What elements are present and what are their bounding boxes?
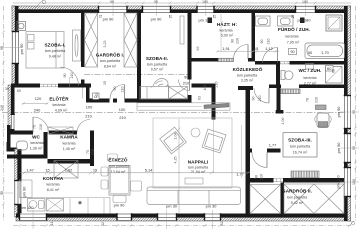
window W4 top (HAZT) bbox=[196, 6, 214, 14]
wall: left exterior KONYHA bbox=[15, 149, 22, 217]
svg-text:pm 90: pm 90 bbox=[336, 142, 341, 154]
furniture: rug NAPPALI bbox=[153, 118, 232, 188]
furniture: bed SZOBA-III bbox=[315, 113, 332, 128]
svg-text:kerámia: kerámia bbox=[52, 103, 66, 107]
exterior dim line right bbox=[354, 6, 357, 221]
room label WC-ZUH bbox=[298, 68, 321, 86]
wall V6 foot bbox=[276, 110, 284, 114]
window W2 top (GARDROB I) bbox=[98, 6, 128, 14]
door SZOBA-I arc bbox=[60, 67, 79, 87]
svg-text:210: 210 bbox=[39, 124, 43, 130]
svg-text:pm 90: pm 90 bbox=[336, 106, 341, 118]
svg-text:90: 90 bbox=[113, 87, 117, 91]
wall: right exterior bbox=[344, 6, 351, 221]
svg-text:63: 63 bbox=[198, 96, 202, 100]
furniture: shower FURDO bbox=[326, 15, 342, 31]
svg-text:210: 210 bbox=[119, 115, 126, 120]
svg-text:SZOBA-I.: SZOBA-I. bbox=[45, 43, 66, 48]
wall H8: WC+KAMRA top bbox=[11, 131, 34, 135]
svg-text:WC: WC bbox=[32, 135, 40, 140]
furniture: armchair 1 NAPPALI bbox=[160, 127, 187, 154]
svg-text:lam.parketta: lam.parketta bbox=[188, 165, 209, 169]
dim line interior horizontal bbox=[20, 171, 251, 174]
svg-text:4,99 m²: 4,99 m² bbox=[55, 109, 68, 113]
svg-text:78: 78 bbox=[306, 98, 310, 102]
svg-text:pm 90: pm 90 bbox=[22, 186, 27, 198]
furniture: shoe cabinet X ELOTER bbox=[48, 127, 73, 134]
door threshold FURDO bbox=[278, 62, 290, 65]
furniture: table behind sofa NAPPALI bbox=[185, 178, 203, 184]
furniture: radiator SZOBA-III bbox=[291, 171, 319, 178]
svg-text:210: 210 bbox=[85, 113, 92, 118]
window W3 top (SZOBA-II) bbox=[142, 6, 171, 14]
wall: WC sink niche bbox=[7, 142, 11, 152]
tiny pier dims bbox=[99, 15, 336, 73]
svg-text:90: 90 bbox=[260, 40, 264, 44]
wall V6: NAPPALI / SZOBA-III upper bbox=[277, 88, 281, 114]
svg-text:210: 210 bbox=[267, 39, 271, 45]
svg-text:kerámia: kerámia bbox=[30, 141, 44, 145]
svg-text:60: 60 bbox=[332, 69, 336, 73]
wall H9: WC bottom bbox=[7, 155, 48, 159]
furniture: kitchen sink bbox=[28, 199, 46, 212]
wall V7: hanging wall ETKEZO/NAPPALI bbox=[212, 88, 216, 120]
svg-text:HÁZT: H:: HÁZT: H: bbox=[217, 21, 238, 27]
svg-text:120: 120 bbox=[35, 96, 42, 101]
svg-text:210: 210 bbox=[121, 87, 125, 93]
room label NAPPALI bbox=[188, 160, 209, 175]
corner mark bottom-right bbox=[348, 221, 355, 227]
dim line vertical ETKEZO bbox=[178, 119, 181, 213]
furniture: wardrobe X SZOBA-II bbox=[169, 87, 188, 100]
svg-text:210: 210 bbox=[258, 96, 262, 102]
window bottom (NAPPALI 1) bbox=[157, 213, 177, 221]
svg-text:9,48 m²: 9,48 m² bbox=[49, 54, 62, 58]
dim line vertical HAZT bbox=[220, 14, 222, 52]
wall A: GARDROB II north (NAPPALI side) bbox=[246, 149, 253, 153]
svg-text:90: 90 bbox=[154, 0, 158, 4]
svg-text:240: 240 bbox=[0, 105, 4, 111]
svg-text:16,74 m²: 16,74 m² bbox=[293, 150, 308, 154]
door corridor->NAPPALI arc bbox=[254, 88, 269, 103]
svg-text:pm 90: pm 90 bbox=[114, 202, 126, 207]
dim: shower 60 box bbox=[326, 66, 334, 72]
furniture: stove KONYHA bbox=[47, 199, 64, 212]
svg-text:pm 180: pm 180 bbox=[336, 175, 341, 189]
svg-text:210: 210 bbox=[70, 73, 74, 79]
window W5 top (FURDO) bbox=[295, 6, 316, 14]
corridor edge line bbox=[82, 88, 84, 99]
svg-text:90: 90 bbox=[0, 46, 4, 50]
window right wall (SZOBA-III b) bbox=[344, 167, 352, 197]
svg-text:lam.parketta: lam.parketta bbox=[237, 74, 258, 78]
svg-text:25: 25 bbox=[213, 15, 217, 19]
room label ELOTER bbox=[49, 94, 69, 112]
svg-text:1,47: 1,47 bbox=[26, 168, 34, 173]
svg-text:kerámia: kerámia bbox=[219, 29, 233, 33]
svg-text:1,62: 1,62 bbox=[65, 168, 73, 173]
wall V11: SZOBA-III vestibule west bbox=[238, 86, 253, 90]
svg-text:32: 32 bbox=[220, 222, 224, 226]
svg-text:75: 75 bbox=[33, 125, 37, 129]
dim line HAZT-FURDO 1,91 15 1,12 bbox=[216, 50, 279, 53]
wall: top exterior bbox=[12, 6, 351, 13]
svg-text:25: 25 bbox=[169, 15, 173, 19]
svg-text:pm 30: pm 30 bbox=[206, 204, 218, 209]
dim extension line vestibule bbox=[241, 125, 243, 178]
room label SZOBA-II bbox=[146, 56, 168, 72]
svg-text:100: 100 bbox=[119, 107, 126, 112]
room label KONYHA bbox=[43, 176, 64, 192]
svg-text:pm 90: pm 90 bbox=[19, 43, 24, 55]
svg-text:210: 210 bbox=[183, 80, 190, 85]
furniture: bathtub FURDO bbox=[305, 43, 345, 59]
svg-text:KÖZLEKEDÕ: KÖZLEKEDÕ bbox=[233, 66, 263, 72]
svg-text:1,77: 1,77 bbox=[236, 172, 244, 177]
furniture: vanity sinks FURDO bbox=[256, 16, 294, 26]
wall: left step at WC bbox=[7, 125, 15, 131]
svg-text:NAPPALI: NAPPALI bbox=[188, 160, 209, 165]
wall V1: SZOBA-I / GARDROB I bbox=[81, 12, 85, 67]
svg-text:1,77: 1,77 bbox=[269, 143, 277, 148]
furniture: radiator box SZOBA-I bbox=[17, 22, 26, 31]
room label KAMRA bbox=[60, 135, 78, 151]
window bottom (NAPPALI 2) bbox=[204, 213, 221, 221]
exterior dim line left bbox=[2, 6, 5, 221]
svg-text:210: 210 bbox=[91, 149, 95, 155]
corner mark top-left bbox=[35, 0, 46, 8]
svg-text:90: 90 bbox=[63, 74, 67, 78]
svg-text:kerámia: kerámia bbox=[303, 76, 317, 80]
svg-text:kerámia: kerámia bbox=[285, 35, 299, 39]
furniture: chairs ETKEZO bbox=[101, 154, 142, 203]
svg-text:KAMRA: KAMRA bbox=[60, 135, 78, 140]
dim: bathtub 90 box bbox=[289, 49, 297, 55]
room label KOZLEKEDO bbox=[233, 66, 263, 83]
svg-text:1,12: 1,12 bbox=[265, 46, 273, 51]
svg-text:63: 63 bbox=[196, 47, 200, 51]
svg-text:100: 100 bbox=[86, 104, 93, 109]
furniture: wardrobe X GARDROB II bbox=[284, 184, 344, 214]
furniture: shower WC-ZUH bbox=[326, 67, 343, 84]
svg-text:15: 15 bbox=[254, 46, 258, 51]
svg-text:90: 90 bbox=[252, 97, 256, 101]
svg-text:kerámia: kerámia bbox=[62, 141, 76, 145]
svg-text:pm 120: pm 120 bbox=[21, 205, 35, 210]
svg-text:1,91: 1,91 bbox=[222, 46, 230, 51]
svg-text:lam.parketta: lam.parketta bbox=[147, 62, 168, 66]
wall H4: FURDO bottom bbox=[255, 61, 278, 65]
window right wall (WC-ZUH) bbox=[344, 95, 352, 129]
furniture: dining table ETKEZO bbox=[109, 166, 130, 196]
door FURDO arc bbox=[263, 48, 278, 63]
room label HAZT bbox=[217, 21, 238, 38]
svg-text:KONYHA: KONYHA bbox=[43, 176, 64, 181]
door threshold SZOBA-I bbox=[40, 84, 58, 87]
wall V8: GARDROB II left bbox=[281, 183, 285, 214]
svg-text:30: 30 bbox=[5, 87, 9, 91]
section line A-A dash-dot bbox=[2, 112, 344, 114]
svg-text:240: 240 bbox=[34, 107, 41, 112]
furniture: toilet WC-ZUH bbox=[281, 71, 293, 80]
svg-text:ELÕTÉR: ELÕTÉR bbox=[49, 94, 69, 101]
svg-text:pm 180: pm 180 bbox=[298, 18, 312, 23]
svg-text:WC / ZUH.: WC / ZUH. bbox=[298, 68, 321, 73]
furniture: dresser SZOBA-II east wall bbox=[180, 16, 184, 44]
svg-text:2,77 m²: 2,77 m² bbox=[304, 81, 317, 85]
wall step V: ELOTER/corridor bbox=[86, 88, 90, 103]
furniture: side table NAPPALI bbox=[191, 128, 200, 137]
furniture: kitchen counter KONYHA bbox=[20, 180, 111, 214]
svg-text:GARDRÓB II.: GARDRÓB II. bbox=[282, 187, 312, 194]
svg-text:5,42 m²: 5,42 m² bbox=[291, 201, 304, 205]
svg-text:SZOBA-II.: SZOBA-II. bbox=[146, 56, 168, 61]
svg-text:pm 90: pm 90 bbox=[151, 16, 163, 21]
wall H2b: SZOBA-II bottom bbox=[125, 99, 192, 103]
wall V2: GARDROB I / SZOBA-II bbox=[137, 12, 141, 99]
wall V10: KAMRA right bbox=[90, 131, 94, 167]
svg-text:90: 90 bbox=[255, 175, 259, 179]
furniture: armchair 2 NAPPALI bbox=[202, 129, 226, 153]
svg-text:210: 210 bbox=[236, 38, 240, 44]
wall V9: WC / KAMRA bbox=[44, 132, 48, 159]
wall H10: KAMRA bottom bbox=[48, 159, 95, 164]
svg-text:pm 30: pm 30 bbox=[166, 204, 178, 209]
svg-text:43: 43 bbox=[95, 93, 99, 97]
svg-text:lam.parketta: lam.parketta bbox=[100, 59, 121, 63]
wall: left exterior ELOTER bbox=[8, 85, 15, 127]
furniture: wardrobe X GARDROB II west niche bbox=[250, 185, 281, 214]
exterior dim line top bbox=[13, 2, 351, 5]
wall H2a: corridor south (ELOTER side) bbox=[86, 99, 110, 103]
room label WC bbox=[30, 135, 45, 151]
window bottom (KONYHA pm120) bbox=[19, 213, 47, 221]
furniture: sink WC bbox=[17, 141, 28, 150]
window right wall (SZOBA-III a) bbox=[344, 133, 352, 163]
symbol box G at ELOTER/corridor bbox=[93, 93, 100, 100]
svg-text:15: 15 bbox=[45, 168, 49, 173]
wall H1: SZOBA-I bottom / GARDROB I bottom bbox=[11, 84, 40, 88]
svg-text:180: 180 bbox=[202, 0, 208, 4]
svg-text:kerámia: kerámia bbox=[46, 183, 60, 187]
svg-text:1,45 m²: 1,45 m² bbox=[63, 147, 76, 151]
svg-text:210: 210 bbox=[260, 174, 264, 180]
svg-text:60: 60 bbox=[17, 89, 21, 93]
wall: left exterior upper (SZOBA-I) bbox=[12, 6, 19, 87]
svg-text:3,23: 3,23 bbox=[103, 41, 107, 48]
svg-text:lam.parketta: lam.parketta bbox=[109, 165, 130, 169]
wall B: SZOBA-III / GARDROB II bottom band bbox=[250, 178, 274, 183]
room label ETKEZO bbox=[108, 155, 130, 174]
wall H3: HAZT bottom bbox=[192, 58, 219, 62]
svg-text:7,95 m²: 7,95 m² bbox=[287, 41, 300, 45]
door GARDROB II arc bbox=[252, 153, 267, 168]
svg-text:lam.parketta: lam.parketta bbox=[287, 195, 308, 199]
section line B dash-dot SZOBA-II bbox=[84, 74, 192, 76]
svg-text:5,00 m²: 5,00 m² bbox=[221, 34, 234, 38]
svg-text:15: 15 bbox=[93, 168, 97, 173]
svg-text:8,41 m²: 8,41 m² bbox=[47, 188, 60, 192]
svg-text:4,25: 4,25 bbox=[174, 157, 178, 164]
svg-text:90: 90 bbox=[110, 0, 114, 4]
svg-text:21,64 m²: 21,64 m² bbox=[191, 170, 206, 174]
svg-text:lam.parketta: lam.parketta bbox=[290, 145, 311, 149]
door SZOBA-II arc bbox=[179, 80, 190, 91]
svg-text:3,35 m²: 3,35 m² bbox=[241, 79, 254, 83]
window left wall (KONYHA) bbox=[14, 180, 22, 205]
door threshold GARDROB II west bbox=[274, 179, 284, 182]
sliding door WC-ZUH / SZOBA-III bbox=[281, 89, 300, 94]
window left wall (SZOBA-I) bbox=[12, 31, 20, 64]
svg-text:180: 180 bbox=[302, 0, 308, 4]
svg-text:1,70: 1,70 bbox=[321, 50, 329, 55]
svg-text:15: 15 bbox=[103, 81, 107, 85]
wall V4: HAZT / FURDO bbox=[252, 12, 256, 62]
dim line vertical NAPPALI west bbox=[213, 120, 215, 174]
svg-text:100: 100 bbox=[203, 85, 207, 91]
svg-text:1,36 m²: 1,36 m² bbox=[30, 147, 43, 151]
dim line ELOTER door bbox=[22, 102, 49, 105]
svg-text:4,00: 4,00 bbox=[281, 118, 285, 125]
svg-text:9,57 m²: 9,57 m² bbox=[151, 68, 164, 72]
furniture: TV board NAPPALI bbox=[137, 103, 230, 110]
furniture: counter dividers bbox=[70, 198, 104, 214]
door WC arc bbox=[33, 117, 49, 133]
svg-text:11: 11 bbox=[50, 222, 54, 226]
window bottom (ETKEZO) bbox=[116, 213, 132, 221]
svg-text:lam.parketta: lam.parketta bbox=[45, 49, 66, 53]
svg-text:pm 90: pm 90 bbox=[103, 16, 115, 21]
label frame SZOBA-III bbox=[283, 133, 317, 157]
svg-text:25: 25 bbox=[291, 15, 295, 19]
door corridor->ETKEZO arc bbox=[110, 85, 125, 100]
wall: left exterior WC bbox=[7, 125, 11, 149]
svg-text:FÜRDÕ / ZUH.: FÜRDÕ / ZUH. bbox=[278, 26, 310, 32]
flue symbol FURDO window bbox=[300, 18, 305, 24]
furniture: wardrobe X left GARDROB I bbox=[85, 13, 98, 67]
furniture: bed SZOBA-II bbox=[140, 78, 169, 99]
furniture: wardrobe X right GARDROB I bbox=[124, 13, 137, 67]
door ELOTER->KAMRA arc bbox=[77, 120, 90, 133]
room label SZOBA-III bbox=[288, 138, 312, 155]
furniture: sink WC-ZUH bbox=[306, 64, 314, 70]
svg-text:13,64 m²: 13,64 m² bbox=[111, 170, 126, 174]
svg-text:72: 72 bbox=[99, 15, 103, 19]
svg-text:5,14: 5,14 bbox=[145, 168, 153, 173]
wall: bottom exterior bbox=[16, 214, 351, 222]
wall H2c: corridor south west bbox=[192, 84, 216, 88]
svg-text:ÉTKEZÕ: ÉTKEZÕ bbox=[108, 155, 128, 162]
furniture: sofa NAPPALI bbox=[147, 187, 241, 205]
room label FURDO bbox=[278, 26, 310, 44]
room label GARDROB II bbox=[282, 187, 312, 206]
svg-text:75: 75 bbox=[86, 150, 90, 154]
room label SZOBA-I bbox=[45, 43, 67, 59]
svg-text:90: 90 bbox=[231, 39, 235, 43]
room label GARDROB I bbox=[96, 50, 125, 68]
radiator KOZLEKEDO on H3 bbox=[218, 58, 234, 61]
door HAZT arc bbox=[234, 45, 249, 60]
entry door opening ELOTER west wall bbox=[11, 114, 15, 129]
furniture: wardrobe SZOBA-I east bbox=[73, 30, 81, 61]
wall H6: WC-ZUH bottom bbox=[269, 85, 281, 89]
furniture: console SZOBA-III bbox=[316, 105, 327, 110]
flue symbol HAZT window bbox=[208, 18, 213, 24]
wall V3: SZOBA-II / HAZT bbox=[188, 12, 192, 80]
furniture: X cabinet KONYHA bbox=[54, 161, 78, 179]
svg-text:8,64 m²: 8,64 m² bbox=[104, 64, 117, 68]
svg-text:✱: ✱ bbox=[78, 201, 82, 207]
svg-text:GARDRÓB I.: GARDRÓB I. bbox=[96, 50, 125, 57]
svg-text:210: 210 bbox=[215, 82, 219, 88]
svg-text:32: 32 bbox=[101, 222, 105, 226]
exterior dim line bottom bbox=[13, 224, 351, 227]
svg-text:1,04: 1,04 bbox=[174, 133, 178, 140]
svg-text:210: 210 bbox=[315, 97, 319, 103]
svg-text:pm 180: pm 180 bbox=[199, 18, 213, 23]
wall V5: KOZLEKEDO / WC-ZUH bbox=[276, 61, 280, 88]
furniture: bed SZOBA-I bbox=[26, 32, 64, 69]
svg-text:SZOBA-III.: SZOBA-III. bbox=[288, 138, 312, 143]
